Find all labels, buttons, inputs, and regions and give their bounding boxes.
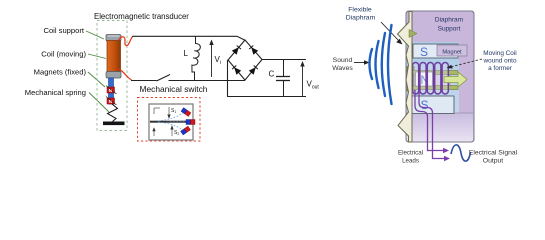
- dashed enclosure transducer: [97, 21, 127, 131]
- moving coil loops: [413, 63, 449, 95]
- arrow Vout: [300, 61, 304, 96]
- lead arrowhead 2: [444, 156, 450, 161]
- diode D3 bottom-left: [232, 66, 241, 75]
- electrical lead wire 2: [419, 90, 444, 159]
- magnet N upper: [107, 87, 115, 94]
- mechanical spring zigzag: [108, 104, 118, 122]
- svg-text:Mechanical switch: Mechanical switch: [140, 84, 208, 94]
- electrical lead wire 1: [415, 90, 443, 151]
- sine wave signal: [451, 145, 471, 161]
- svg-text:Magnet: Magnet: [442, 50, 462, 56]
- coil support bottom cap: [106, 72, 121, 79]
- leader line magnets: [88, 72, 105, 87]
- switch inset bottom marks: [153, 126, 173, 136]
- wire output bottom rail: [227, 96, 306, 98]
- arrow sound waves: [354, 60, 370, 64]
- label Magnet: [437, 45, 467, 56]
- svg-text:Moving Coil: Moving Coil: [483, 50, 516, 57]
- arrow Vi: [209, 40, 213, 78]
- inner frame line: [406, 11, 474, 142]
- coil support top cap: [106, 35, 121, 42]
- svg-text:Sound: Sound: [333, 57, 353, 64]
- svg-text:Electrical Signal: Electrical Signal: [469, 150, 518, 157]
- svg-text:Support: Support: [438, 26, 461, 33]
- svg-text:Coil (moving): Coil (moving): [41, 50, 86, 59]
- capacitor C: [276, 60, 290, 97]
- leader line coil support: [86, 31, 104, 39]
- mechanical switch blade: [157, 75, 171, 82]
- magnet top bar S: [413, 44, 458, 59]
- coil former green channel: [407, 67, 458, 92]
- interior window: [406, 42, 459, 113]
- svg-text:Mechanical spring: Mechanical spring: [25, 88, 86, 97]
- svg-text:Electromagnetic transducer: Electromagnetic transducer: [94, 12, 189, 21]
- dashed leader moving coil: [447, 59, 483, 69]
- svg-text:S: S: [421, 98, 429, 112]
- svg-text:Magnets (fixed): Magnets (fixed): [34, 68, 87, 77]
- svg-text:Diaphram: Diaphram: [435, 17, 463, 24]
- svg-text:Coil support: Coil support: [43, 26, 84, 35]
- switch inset magnet pair middle: [186, 120, 195, 125]
- magnet stack shading strokes: [106, 86, 117, 106]
- switch inset magnet pair upper: [181, 108, 191, 117]
- svg-text:Flexible: Flexible: [348, 7, 372, 14]
- red wire top: [119, 37, 133, 46]
- diaphragm zigzag edge: [398, 12, 413, 143]
- bottom band: [406, 113, 473, 142]
- switch inset box: [149, 104, 193, 140]
- yellow motion arrow: [444, 72, 467, 87]
- svg-text:Electrical: Electrical: [398, 150, 423, 157]
- diode D2 top-right: [249, 46, 258, 55]
- label N box: [416, 72, 433, 87]
- wire output top rail: [262, 59, 306, 61]
- diode D4 bottom-right: [249, 66, 258, 75]
- wire bridge left to bottom rail: [227, 60, 229, 97]
- sound wave arcs: [370, 25, 392, 104]
- switch inset top marks: [154, 107, 170, 118]
- svg-text:L: L: [184, 49, 189, 58]
- arrow flexible diaphragm: [381, 22, 403, 45]
- magnet bottom bar S: [412, 96, 454, 114]
- wire bottom left to switch: [131, 80, 157, 82]
- magnet center pole: [430, 73, 450, 86]
- svg-text:Output: Output: [483, 158, 504, 165]
- red wire bottom: [119, 69, 132, 80]
- svg-text:Diaphram: Diaphram: [346, 15, 376, 22]
- magnet stack blue rod: [109, 78, 114, 104]
- microphone outer frame diaphragm support: [406, 11, 474, 142]
- switch inset magnet pair lower: [181, 126, 191, 135]
- svg-text:a former: a former: [488, 65, 513, 72]
- magnet N lower: [107, 98, 115, 105]
- dashed red enclosure switch detail: [138, 98, 201, 142]
- diaphragm attachment wedge: [409, 30, 417, 38]
- coil (moving) orange cylinder: [107, 41, 121, 73]
- svg-text:Leads: Leads: [402, 158, 419, 165]
- inductor L: [192, 36, 200, 80]
- svg-text:wound onto: wound onto: [482, 58, 516, 65]
- switch inset cantilever bar: [150, 121, 187, 123]
- lead arrowhead 1: [443, 148, 449, 153]
- svg-text:S: S: [420, 45, 428, 59]
- wire switch to bridge bottom: [169, 80, 246, 82]
- wire top rail: [132, 36, 245, 40]
- leader line coil moving: [88, 54, 106, 59]
- diode D1 top-left: [232, 46, 241, 55]
- bridge rectifier diamond: [228, 40, 262, 80]
- svg-text:C: C: [269, 70, 275, 79]
- switch inset dashed trajectories: [158, 112, 186, 131]
- base plate: [103, 122, 125, 126]
- svg-text:Waves: Waves: [332, 65, 353, 72]
- leader line spring: [89, 93, 109, 113]
